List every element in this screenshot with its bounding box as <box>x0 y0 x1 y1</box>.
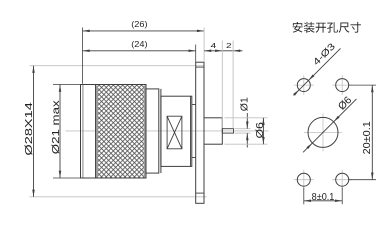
knurled coupling nut body <box>96 85 147 179</box>
dim 4 left arrow <box>204 50 211 53</box>
hole top-right centermark <box>332 84 352 86</box>
hole bottom-left centermark <box>294 179 314 181</box>
flange top chamfer line <box>196 66 204 68</box>
dim 8 line <box>304 200 342 202</box>
dim O21max top arrow <box>59 85 62 92</box>
rear body right inner edge <box>190 96 192 166</box>
insulator diagonal 2 <box>167 116 182 149</box>
hole bottom-right centermark <box>332 179 352 181</box>
ext line hole bottom-right <box>349 179 376 181</box>
ext line bushing bottom grey <box>225 143 268 145</box>
dim O28X14 line <box>33 66 35 197</box>
ext line O21 bottom <box>53 177 87 179</box>
svg-text:8±0.1: 8±0.1 <box>312 192 335 203</box>
ext line pin top grey <box>235 128 251 130</box>
ext line hole bottom-left down <box>303 188 305 205</box>
dim O1 bottom arrow <box>246 133 249 140</box>
leader 4-O3 arrow far side <box>293 90 299 96</box>
dim O1 line lower tail <box>246 133 248 147</box>
hole top-left centermark <box>294 84 314 86</box>
dim 4 right arrow / dim 2 left arrow <box>215 50 222 53</box>
svg-text:2: 2 <box>226 41 232 50</box>
dim 8 left arrow <box>304 200 311 203</box>
ext line hole bottom-right down <box>341 188 343 205</box>
front cap inner edge <box>82 85 84 178</box>
knurl right shade <box>144 86 146 178</box>
dim O6 line <box>262 118 264 144</box>
insulator cross-section box <box>167 116 182 149</box>
svg-text:Ø6: Ø6 <box>255 122 266 139</box>
ext line pin bottom grey <box>235 132 251 134</box>
ext line left for (26)/(24) <box>82 28 84 84</box>
ext line O21 top <box>53 84 81 86</box>
extension line bottom flange OD <box>30 196 207 198</box>
dim 20 bottom arrow <box>371 173 374 180</box>
dim O6 bottom arrow <box>262 137 265 144</box>
ext line for (24) right <box>195 45 197 62</box>
dim 8 right arrow <box>335 200 342 203</box>
title: installation hole dimensions (CJK) <box>293 22 361 33</box>
svg-text:Ø6: Ø6 <box>336 94 355 113</box>
ring section behind knurl <box>146 89 159 173</box>
dim O6 top arrow <box>262 118 265 125</box>
center contact pin <box>222 129 233 133</box>
connector front cap <box>81 85 96 179</box>
dim O21max line <box>59 85 61 179</box>
ext line bushing top grey <box>225 117 268 119</box>
dim (24) left arrow <box>83 50 90 53</box>
dim 20 top arrow <box>371 85 374 92</box>
ring double edge <box>160 89 162 173</box>
neck bottom edge <box>192 157 196 159</box>
dim (26) left arrow <box>83 30 90 33</box>
svg-text:(24): (24) <box>131 39 148 49</box>
dim O28X14 top arrow <box>32 66 35 73</box>
hole bottom-left <box>297 173 310 186</box>
hole top-right <box>336 79 349 92</box>
dim (24) right arrow <box>189 50 196 53</box>
svg-text:4: 4 <box>211 41 217 50</box>
center hole O6 <box>308 117 338 147</box>
dim 20 line <box>371 85 373 180</box>
leader O6 arrow at hole <box>334 116 340 122</box>
dim O21max bottom arrow <box>59 171 62 178</box>
svg-text:Ø28X14: Ø28X14 <box>23 102 35 156</box>
dim O28X14 bottom arrow <box>32 190 35 197</box>
leader O6 arrow far side <box>306 143 312 149</box>
flange bottom chamfer line <box>196 192 204 194</box>
leader 4-O3 arrow at hole <box>308 75 314 81</box>
insulator diagonal 1 <box>167 116 182 149</box>
dim (26) line <box>83 30 205 32</box>
dim O1 line upper tail <box>246 113 248 129</box>
ext line pin end grey <box>232 41 234 129</box>
ext line right for (26) grey <box>203 28 205 63</box>
hole top-left <box>297 79 310 92</box>
mounting flange <box>196 62 204 203</box>
ext line pin start grey <box>221 41 223 129</box>
svg-text:Ø21 max: Ø21 max <box>50 99 62 154</box>
rear insulator bushing <box>204 118 222 144</box>
dim 2 right arrow <box>233 50 240 53</box>
hole bottom-right <box>336 173 349 186</box>
knurl left shade <box>96 86 98 178</box>
dim (24) line <box>83 50 196 52</box>
svg-text:Ø1: Ø1 <box>240 97 251 111</box>
ext line hole top-right <box>349 84 376 86</box>
centerline of connector side view <box>66 130 269 132</box>
dim 4/2 line <box>204 50 242 52</box>
svg-text:(26): (26) <box>131 19 148 29</box>
svg-text:4-Ø3: 4-Ø3 <box>310 41 337 68</box>
neck top edge <box>192 104 196 106</box>
dim O1 top arrow <box>246 122 249 129</box>
rear connector body <box>161 96 192 166</box>
leader line 4-O3 <box>294 48 341 95</box>
dim (26) right arrow <box>197 30 204 33</box>
center hole centermark <box>304 131 342 133</box>
extension line top flange OD <box>30 65 205 67</box>
svg-text:20±0.1: 20±0.1 <box>362 121 373 155</box>
leader line O6 <box>303 99 356 152</box>
